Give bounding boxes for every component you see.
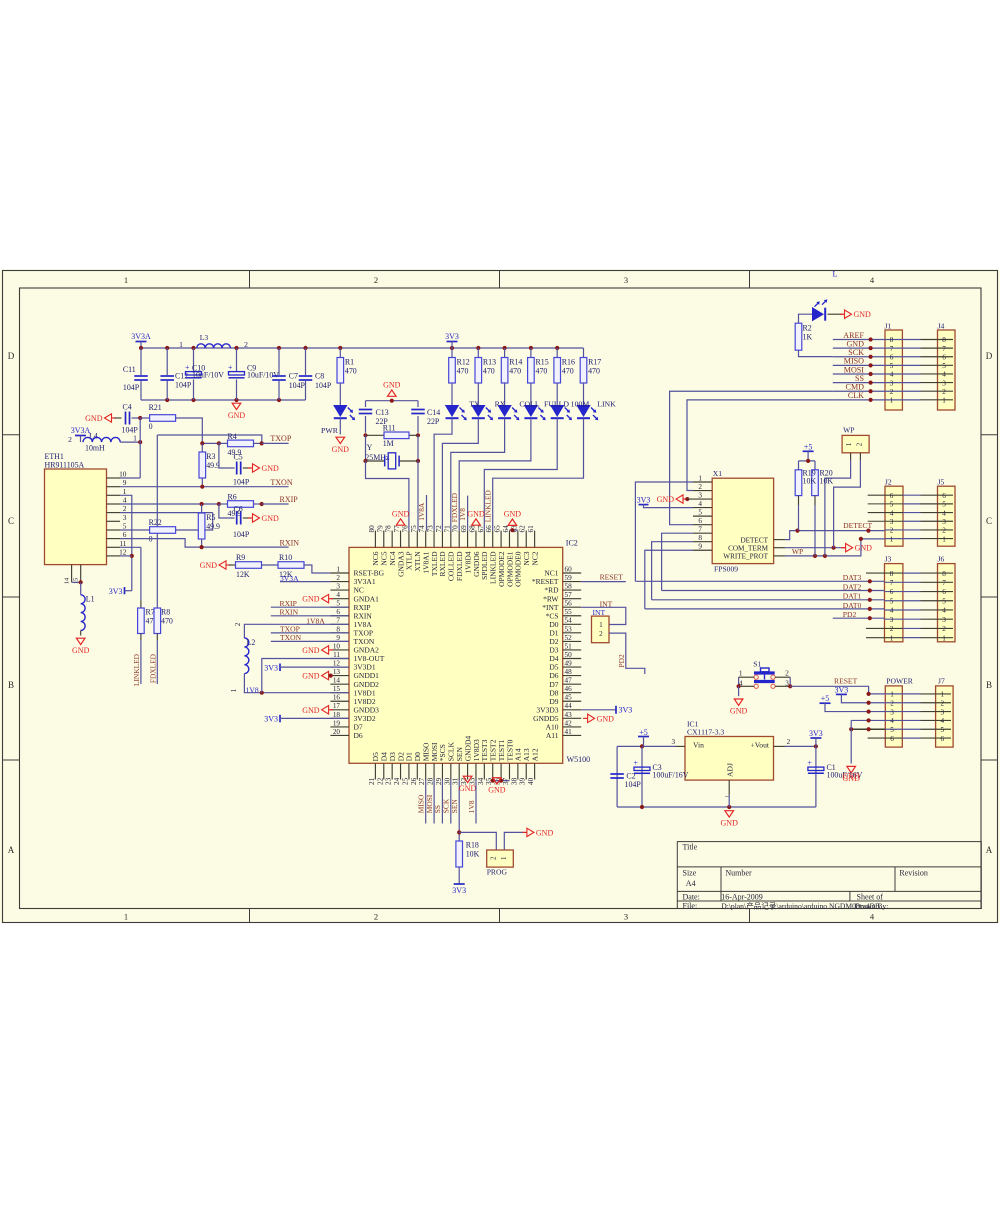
svg-text:1V8: 1V8 — [458, 508, 467, 521]
svg-text:26: 26 — [410, 777, 418, 785]
svg-text:4: 4 — [890, 717, 894, 725]
wire J3 to J6 row 2 — [866, 627, 903, 629]
svg-text:4: 4 — [941, 717, 945, 725]
svg-text:41: 41 — [565, 728, 573, 736]
svg-text:1K: 1K — [803, 333, 813, 342]
svg-text:2: 2 — [490, 856, 498, 860]
svg-text:3: 3 — [890, 518, 894, 526]
svg-text:L2: L2 — [247, 638, 256, 647]
capacitor C14 — [417, 401, 419, 407]
svg-text:R13: R13 — [483, 358, 496, 367]
gnd below regulator — [725, 811, 734, 817]
wire CLK long riser — [687, 400, 833, 491]
svg-text:C5: C5 — [234, 452, 243, 461]
wire R10 to chip pin1 — [304, 565, 330, 573]
svg-text:C13: C13 — [376, 408, 389, 417]
svg-text:Size: Size — [683, 868, 697, 877]
svg-text:D6: D6 — [354, 731, 363, 740]
svg-text:DETECT: DETECT — [740, 536, 768, 544]
wire 1V8A1 pin74 stub — [426, 495, 428, 531]
svg-text:R16: R16 — [562, 358, 575, 367]
svg-text:X1: X1 — [713, 469, 722, 478]
resistor R13 — [477, 348, 479, 358]
wire SEN from pin31 to R18 — [458, 780, 460, 842]
X1 pin stubs — [693, 481, 712, 483]
svg-text:11: 11 — [333, 651, 340, 659]
svg-text:2: 2 — [942, 388, 946, 396]
svg-text:2: 2 — [336, 574, 340, 582]
svg-text:COLL: COLL — [519, 400, 540, 409]
svg-text:GND: GND — [721, 818, 739, 827]
svg-text:5: 5 — [942, 501, 946, 509]
power port 3V3 at pin44 — [581, 709, 616, 711]
svg-text:59: 59 — [565, 574, 573, 582]
svg-text:78: 78 — [385, 525, 393, 533]
wire J2 to J5 row 2 — [885, 529, 921, 531]
svg-text:104P: 104P — [289, 381, 306, 390]
capacitor C4 — [125, 412, 127, 425]
outer border frame — [3, 271, 998, 923]
svg-text:POWER: POWER — [886, 677, 914, 686]
svg-text:C14: C14 — [427, 408, 440, 417]
svg-text:45: 45 — [565, 694, 573, 702]
svg-text:LINK: LINK — [597, 400, 616, 409]
svg-text:Title: Title — [683, 843, 698, 852]
svg-text:1: 1 — [941, 691, 945, 699]
svg-text:46: 46 — [565, 685, 573, 693]
wire X1 pin9 DAT0 riser — [645, 550, 693, 609]
resistor R9 — [229, 564, 236, 566]
svg-text:7: 7 — [942, 345, 946, 353]
svg-text:2: 2 — [890, 699, 894, 707]
svg-text:C12: C12 — [175, 372, 188, 381]
svg-text:1: 1 — [890, 397, 894, 405]
svg-text:GND: GND — [536, 828, 554, 837]
jumper pins 64 63 opmode to gnd — [510, 529, 518, 531]
svg-text:57: 57 — [565, 591, 573, 599]
wire J3 to J6 row 5 — [885, 600, 921, 602]
led under R13 — [477, 383, 479, 405]
wire CMD long riser — [670, 391, 833, 524]
svg-text:6: 6 — [890, 492, 894, 500]
wire J1 to J4 row 3 — [885, 382, 921, 384]
wire R2 bottom to SCK row — [799, 350, 833, 356]
wire R2 to led — [799, 314, 813, 323]
svg-text:5: 5 — [890, 726, 894, 734]
svg-text:+: + — [807, 758, 812, 767]
svg-text:R2: R2 — [803, 324, 812, 333]
svg-text:PWR: PWR — [321, 426, 339, 435]
led under R17 — [583, 383, 585, 405]
svg-text:FULLD: FULLD — [544, 400, 569, 409]
svg-text:6: 6 — [698, 517, 702, 525]
svg-text:22: 22 — [376, 777, 384, 785]
led under R14 — [504, 383, 506, 405]
svg-text:19: 19 — [333, 719, 341, 727]
svg-text:C7: C7 — [289, 372, 298, 381]
wire J2 to J5 row 4 — [868, 512, 903, 514]
wire led2 to pin72 RXLED — [442, 418, 478, 530]
svg-text:GND: GND — [262, 514, 280, 523]
wire J3 to J6 row 1 — [866, 637, 903, 639]
svg-text:GND: GND — [842, 771, 860, 780]
svg-text:6: 6 — [942, 588, 946, 596]
svg-text:1: 1 — [124, 275, 128, 285]
ground below filter rail — [232, 403, 241, 409]
svg-text:7: 7 — [698, 526, 702, 534]
capacitor C9 — [236, 348, 238, 372]
led under R16 — [556, 383, 558, 405]
wire MISO from pin27 — [425, 780, 427, 824]
svg-text:8: 8 — [942, 570, 946, 578]
wire J2 to J5 row 3 — [868, 520, 903, 522]
wire ETH pin11 to R7 — [120, 546, 141, 548]
svg-text:1: 1 — [890, 634, 894, 642]
svg-text:71: 71 — [443, 525, 451, 533]
X1 detect pin wire to J2 row2 — [774, 539, 785, 541]
svg-text:A11: A11 — [546, 731, 559, 740]
svg-text:C6: C6 — [234, 504, 243, 513]
led under R12 — [451, 383, 453, 405]
svg-text:1: 1 — [890, 691, 894, 699]
svg-text:6: 6 — [942, 492, 946, 500]
svg-text:60: 60 — [565, 565, 573, 573]
capacitor C13 — [365, 401, 367, 407]
svg-text:R4: R4 — [228, 432, 237, 441]
svg-text:C11: C11 — [123, 365, 136, 374]
svg-text:3: 3 — [624, 912, 628, 922]
svg-text:2: 2 — [942, 527, 946, 535]
svg-text:CLK: CLK — [848, 391, 864, 400]
IC2 left pin stubs and numbers — [330, 572, 349, 574]
wire X1 pin7 DAT2 riser — [662, 533, 693, 590]
wire WP pin2 riser — [859, 453, 861, 460]
svg-text:5: 5 — [890, 501, 894, 509]
svg-text:Date:: Date: — [683, 893, 700, 902]
svg-text:6: 6 — [941, 735, 945, 743]
resistor R6 — [219, 503, 228, 505]
wire ETH bottom pins join — [72, 581, 81, 583]
resistor R12 — [451, 348, 453, 358]
svg-text:GND: GND — [200, 561, 218, 570]
wire ETH pin9 TXON row — [120, 486, 250, 488]
wire J2 to J5 row 5 — [868, 503, 903, 505]
svg-text:2: 2 — [890, 388, 894, 396]
svg-text:+5: +5 — [804, 442, 813, 451]
svg-text:52: 52 — [565, 634, 573, 642]
wire riser to R8 fdxled — [156, 435, 158, 608]
wire 1V8D4 pin69 stub — [467, 496, 469, 531]
svg-text:D: D — [986, 351, 993, 361]
svg-text:70: 70 — [452, 525, 460, 533]
power port 3V3 below R18 — [458, 867, 460, 884]
connector PROG — [487, 850, 514, 867]
svg-text:8: 8 — [890, 570, 894, 578]
gnd port right of com_term — [846, 544, 853, 552]
svg-text:67: 67 — [477, 525, 485, 533]
svg-text:470: 470 — [588, 367, 600, 376]
svg-text:104P: 104P — [315, 381, 332, 390]
IC2 right pin stubs and numbers — [563, 572, 582, 574]
svg-text:10K: 10K — [466, 849, 480, 858]
svg-text:2: 2 — [856, 442, 864, 446]
wire J3 to J6 row 6 — [885, 591, 921, 593]
svg-text:7: 7 — [336, 617, 340, 625]
svg-text:LINKLED: LINKLED — [484, 490, 493, 523]
svg-text:A12: A12 — [530, 748, 539, 761]
resistor R4 — [219, 442, 228, 444]
X1 write_prot wire to J2 row1 — [774, 555, 785, 557]
svg-text:2: 2 — [941, 699, 945, 707]
svg-text:3V3: 3V3 — [619, 706, 633, 715]
wire R22 to pin2 riser — [176, 513, 213, 530]
svg-text:47: 47 — [565, 677, 573, 685]
wire ETH pin4 RXIP row — [120, 503, 219, 505]
node TXOP row — [202, 442, 219, 444]
wire row4 gnd — [851, 719, 885, 721]
svg-text:68: 68 — [468, 525, 476, 533]
svg-text:14: 14 — [64, 577, 71, 584]
svg-text:5: 5 — [890, 597, 894, 605]
X1 com_term wire to gnd — [774, 547, 785, 549]
wire POWER to J7 row 2 — [885, 702, 920, 704]
svg-text:49: 49 — [565, 659, 573, 667]
svg-text:R8: R8 — [161, 608, 170, 617]
wire MOSI from pin28 — [433, 780, 435, 824]
svg-text:42: 42 — [565, 719, 573, 727]
wire +5 node to resistors — [799, 460, 816, 462]
capacitor C1 — [815, 746, 817, 807]
wire J1 to J4 row 5 — [885, 364, 921, 366]
inductor L1 — [81, 595, 85, 631]
svg-text:10uF/10V: 10uF/10V — [192, 371, 224, 380]
wire crystal left branch to XTLP pin76 — [366, 461, 409, 531]
svg-text:17: 17 — [333, 702, 341, 710]
svg-text:WP: WP — [792, 547, 803, 556]
svg-text:1V8A: 1V8A — [417, 502, 426, 521]
svg-text:6: 6 — [942, 353, 946, 361]
svg-text:2: 2 — [68, 435, 72, 444]
svg-text:8: 8 — [336, 625, 340, 633]
svg-text:8: 8 — [890, 336, 894, 344]
zone tick marks — [249, 271, 251, 289]
wire gnd drop from rows 4-5 — [850, 720, 852, 763]
svg-text:27: 27 — [418, 777, 426, 785]
svg-text:R17: R17 — [588, 358, 601, 367]
svg-text:B: B — [8, 680, 14, 690]
gnd port at pin43 — [588, 714, 595, 722]
wire ETH pin5 row to R22 — [120, 529, 150, 531]
svg-text:77: 77 — [393, 525, 401, 533]
wire J1 to J4 row 7 — [885, 347, 921, 349]
svg-text:51: 51 — [565, 642, 573, 650]
svg-text:ADJ: ADJ — [726, 763, 735, 777]
svg-text:+: + — [185, 363, 190, 372]
wire J1 to J4 row 8 — [885, 339, 921, 341]
resistor R22 — [150, 527, 176, 534]
svg-text:NC2: NC2 — [530, 551, 539, 565]
inductor L2 — [244, 638, 248, 674]
svg-text:44: 44 — [565, 702, 573, 710]
svg-text:R7: R7 — [146, 608, 155, 617]
wire riser ETH pin1/pin12 to 3V3 — [120, 495, 132, 590]
svg-text:470: 470 — [483, 367, 495, 376]
svg-text:J3: J3 — [885, 555, 892, 564]
svg-text:CX1117-3.3: CX1117-3.3 — [687, 728, 724, 737]
svg-text:GND: GND — [85, 414, 103, 423]
node dots on 3V3A rail — [139, 346, 143, 350]
node RXIP row — [200, 502, 204, 506]
svg-text:Y: Y — [367, 443, 373, 452]
svg-text:75: 75 — [410, 525, 418, 533]
wire R1 to PWR led — [339, 383, 341, 405]
wire J1 to J4 row 4 — [885, 373, 921, 375]
wire POWER to J7 row 1 — [885, 693, 920, 695]
svg-text:2: 2 — [890, 625, 894, 633]
svg-text:470: 470 — [562, 367, 574, 376]
wire ETH pin2 row — [120, 512, 213, 514]
svg-text:49.9: 49.9 — [206, 522, 220, 531]
svg-text:12K: 12K — [236, 570, 250, 579]
svg-text:Vin: Vin — [693, 741, 704, 750]
resistor R1 — [339, 348, 341, 358]
svg-text:7: 7 — [942, 579, 946, 587]
wire R5 bottom to RXIN row — [201, 539, 203, 547]
resistor R11 — [363, 433, 367, 437]
svg-text:2: 2 — [785, 670, 789, 678]
svg-text:69: 69 — [460, 525, 468, 533]
svg-text:20: 20 — [333, 728, 341, 736]
svg-text:80: 80 — [368, 525, 376, 533]
svg-text:WRITE_PROT: WRITE_PROT — [723, 552, 768, 560]
svg-text:66: 66 — [485, 525, 493, 533]
wire J3 to J6 row 7 — [885, 581, 921, 583]
jumper TEST pins 35-37 to gnd — [493, 780, 510, 782]
resistor R20 — [812, 470, 819, 496]
svg-text:2: 2 — [123, 504, 127, 513]
ADJ pin down — [728, 780, 730, 795]
svg-text:43: 43 — [565, 711, 573, 719]
svg-text:J6: J6 — [938, 555, 945, 564]
svg-text:3: 3 — [624, 275, 628, 285]
wire pin11 riser — [262, 659, 349, 693]
svg-text:3: 3 — [942, 616, 946, 624]
svg-text:24: 24 — [393, 777, 401, 785]
svg-text:5: 5 — [698, 509, 702, 517]
resistor R17 — [583, 348, 585, 358]
svg-text:40: 40 — [527, 777, 535, 785]
svg-text:WP: WP — [843, 426, 854, 435]
svg-text:56: 56 — [565, 600, 573, 608]
svg-text:GND: GND — [854, 310, 872, 319]
svg-text:SEN: SEN — [450, 799, 459, 814]
svg-text:6: 6 — [890, 588, 894, 596]
svg-text:10: 10 — [333, 642, 341, 650]
svg-text:GND: GND — [459, 784, 477, 793]
svg-text:3: 3 — [672, 738, 676, 746]
svg-text:1V8: 1V8 — [467, 800, 476, 813]
resistor R2 — [795, 323, 802, 350]
wire J3 to J6 row 4 — [885, 609, 921, 611]
svg-text:LINKLED: LINKLED — [132, 653, 141, 686]
svg-text:+: + — [228, 363, 233, 372]
svg-text:62: 62 — [519, 525, 527, 533]
wire crystal right branch to XTLN pin75 — [417, 461, 419, 531]
wire led3 to pin71 COLLED — [451, 418, 505, 530]
wire R3 bottom to TXON row — [201, 478, 203, 487]
capacitor C5 — [219, 443, 235, 468]
led under R15 — [530, 383, 532, 405]
resistor R14 — [504, 348, 506, 358]
inner border frame — [20, 288, 982, 909]
svg-text:21: 21 — [368, 777, 376, 785]
capacitor C11 — [140, 348, 142, 375]
svg-text:RESET: RESET — [834, 677, 858, 686]
svg-text:GND: GND — [302, 672, 320, 681]
svg-text:3V3A: 3V3A — [71, 426, 91, 435]
svg-text:+Vout: +Vout — [751, 741, 770, 750]
resistor R3 — [201, 443, 203, 452]
wire crystal branches — [365, 435, 367, 461]
svg-text:50: 50 — [565, 651, 573, 659]
svg-text:TXOP: TXOP — [270, 434, 291, 443]
svg-text:61: 61 — [527, 525, 535, 533]
svg-text:4: 4 — [942, 371, 946, 379]
svg-text:R21: R21 — [149, 403, 162, 412]
resistor R21 — [140, 417, 149, 419]
wire L2 bottom 1V8 row to pin15 — [244, 674, 348, 693]
svg-text:3V3: 3V3 — [835, 685, 849, 694]
svg-text:1: 1 — [231, 689, 238, 692]
wire gnd to C4 — [115, 417, 122, 419]
svg-text:J1: J1 — [885, 322, 892, 331]
svg-text:15: 15 — [333, 685, 341, 693]
svg-text:470: 470 — [457, 367, 469, 376]
ic IC2 W5100 body — [349, 547, 563, 763]
svg-text:100M: 100M — [571, 400, 590, 409]
gnd port right of led — [828, 313, 844, 315]
svg-text:A: A — [986, 845, 993, 855]
svg-text:55: 55 — [565, 608, 573, 616]
svg-text:3: 3 — [941, 708, 945, 716]
svg-text:65: 65 — [494, 525, 502, 533]
svg-text:470: 470 — [345, 367, 357, 376]
gnd above pin77 GNDA3 — [396, 519, 405, 525]
svg-text:34: 34 — [477, 777, 485, 785]
svg-text:72: 72 — [435, 525, 443, 533]
svg-text:A: A — [8, 845, 15, 855]
svg-text:D: D — [8, 351, 15, 361]
svg-text:GND: GND — [302, 706, 320, 715]
svg-text:4: 4 — [890, 509, 894, 517]
svg-text:+5: +5 — [821, 694, 830, 703]
svg-text:6: 6 — [336, 608, 340, 616]
svg-text:38: 38 — [510, 777, 518, 785]
ground port right of C6 — [243, 517, 251, 519]
svg-text:C: C — [986, 516, 992, 526]
svg-text:2: 2 — [942, 625, 946, 633]
S1 left pins to gnd — [739, 676, 755, 678]
svg-text:RXIN: RXIN — [280, 607, 299, 616]
wire J3 to J6 row 3 — [885, 618, 921, 620]
wire J2 to J5 row 1 — [885, 538, 921, 540]
svg-text:23: 23 — [385, 777, 393, 785]
svg-text:HR911105A: HR911105A — [45, 461, 85, 470]
wire crystal loop top — [366, 400, 419, 402]
svg-text:GND: GND — [504, 510, 522, 519]
svg-text:5: 5 — [336, 600, 340, 608]
svg-text:FDXLED: FDXLED — [148, 653, 157, 683]
